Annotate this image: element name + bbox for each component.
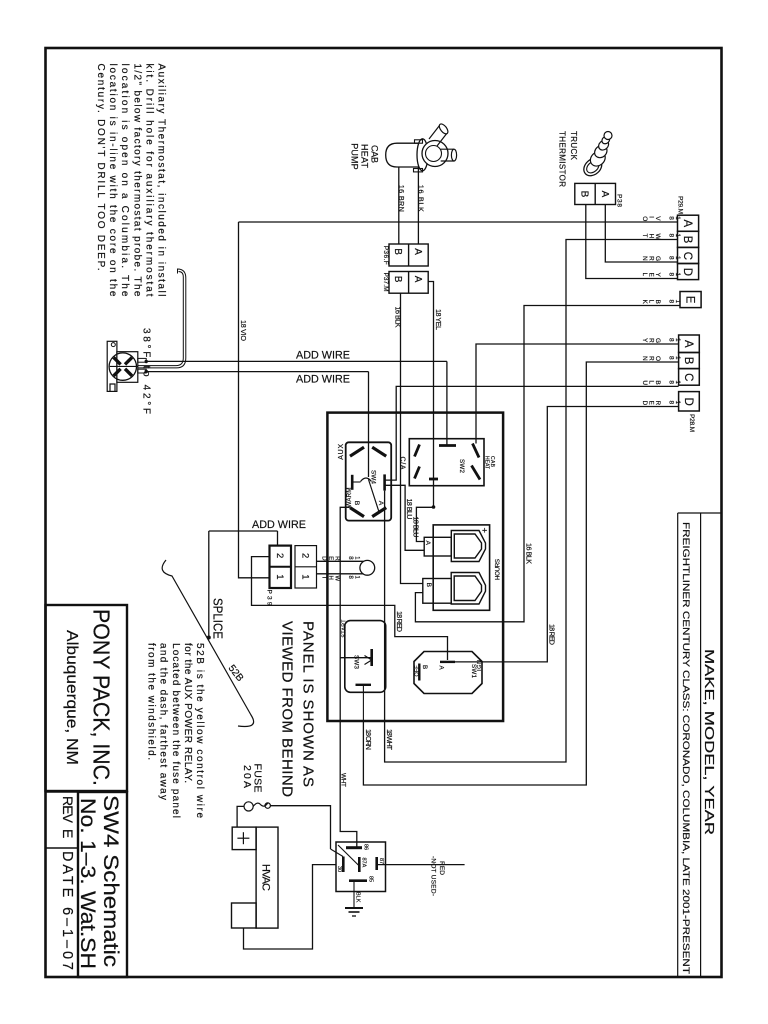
svg-text:P38: P38	[616, 194, 623, 207]
svg-text:8: 8	[667, 216, 674, 220]
svg-text:B: B	[421, 665, 428, 669]
svg-text:Albuquerque, NM: Albuquerque, NM	[63, 630, 80, 765]
svg-text:D: D	[321, 556, 327, 561]
svg-text:2: 2	[274, 553, 285, 558]
svg-text:A: A	[412, 248, 423, 255]
svg-text:kit. Drill hole for auxiliary: kit. Drill hole for auxiliary thermostat	[143, 64, 154, 297]
svg-text:VIEWED FROM BEHIND: VIEWED FROM BEHIND	[279, 621, 296, 797]
svg-text:P28.M: P28.M	[688, 414, 695, 432]
svg-text:START: START	[342, 619, 348, 638]
svg-text:A: A	[412, 276, 423, 283]
svg-text:W: W	[334, 576, 340, 582]
svg-text:8: 8	[667, 356, 674, 360]
svg-text:HVAC: HVAC	[260, 864, 272, 891]
svg-text:DATE 6–1–07: DATE 6–1–07	[59, 851, 75, 970]
svg-text:C/A: C/A	[399, 457, 406, 470]
svg-text:ADD WIRE: ADD WIRE	[296, 350, 350, 362]
svg-text:ADD WIRE: ADD WIRE	[296, 374, 350, 386]
svg-text:P36.F: P36.F	[382, 246, 389, 265]
svg-text:86: 86	[363, 844, 369, 850]
svg-text:O: O	[641, 216, 648, 221]
svg-text:THERMISTOR: THERMISTOR	[558, 131, 567, 187]
svg-text:1: 1	[299, 574, 310, 579]
svg-text:P37.M: P37.M	[382, 273, 389, 292]
svg-text:52B is the yellow control wire: 52B is the yellow control wire	[194, 643, 205, 818]
svg-text:L: L	[641, 273, 648, 277]
svg-text:P29.M: P29.M	[677, 196, 684, 214]
svg-text:18 VIO: 18 VIO	[239, 320, 248, 341]
svg-text:Located between the fuse panel: Located between the fuse panel	[170, 643, 181, 818]
svg-text:18 RED: 18 RED	[395, 611, 404, 632]
svg-text:D: D	[641, 401, 648, 406]
svg-text:HEAT: HEAT	[483, 456, 489, 469]
svg-text:18 ORN: 18 ORN	[364, 729, 373, 750]
svg-text:AUX: AUX	[338, 443, 345, 459]
svg-text:HEAT: HEAT	[360, 144, 370, 169]
svg-text:16 BLK: 16 BLK	[416, 185, 425, 212]
svg-text:SW3: SW3	[353, 655, 360, 670]
svg-text:B: B	[392, 276, 403, 283]
svg-text:D: D	[681, 268, 693, 276]
svg-text:A: A	[599, 191, 610, 198]
svg-text:A: A	[681, 220, 693, 228]
svg-text:location is in-line with the c: location is in-line with the core on the	[107, 64, 118, 297]
svg-text:SW2: SW2	[458, 459, 465, 474]
svg-text:PONY PACK, INC.: PONY PACK, INC.	[89, 609, 115, 786]
svg-text:18 YEL: 18 YEL	[434, 309, 443, 330]
svg-text:for the AUX POWER RELAY.: for the AUX POWER RELAY.	[182, 643, 193, 783]
svg-text:BLK: BLK	[355, 892, 361, 903]
svg-text:B: B	[425, 583, 432, 588]
svg-text:A: A	[424, 541, 431, 546]
svg-text:87A: 87A	[361, 858, 367, 868]
svg-text:SPLICE: SPLICE	[211, 598, 225, 639]
svg-text:U: U	[641, 380, 648, 385]
svg-text:1/2" below factory thermostat: 1/2" below factory thermostat probe. The	[131, 64, 142, 297]
svg-text:20A: 20A	[241, 765, 253, 788]
svg-text:HOURS: HOURS	[495, 559, 502, 580]
svg-text:8: 8	[667, 401, 674, 405]
svg-text:P39: P39	[265, 590, 272, 606]
svg-text:A: A	[682, 340, 694, 348]
svg-text:B: B	[681, 236, 693, 244]
svg-text:B: B	[392, 248, 403, 255]
svg-text:E: E	[683, 296, 695, 304]
svg-text:PUMP: PUMP	[350, 143, 360, 170]
svg-text:-NOT USED-: -NOT USED-	[430, 856, 437, 896]
svg-text:C: C	[682, 373, 694, 381]
svg-text:RED: RED	[438, 861, 445, 875]
svg-text:8: 8	[667, 273, 674, 277]
svg-text:REV: REV	[60, 796, 76, 824]
svg-text:30: 30	[336, 866, 342, 872]
svg-text:8: 8	[667, 234, 674, 238]
svg-text:SW4: SW4	[370, 470, 377, 485]
svg-text:A: A	[377, 501, 384, 506]
svg-text:87: 87	[378, 858, 384, 864]
svg-text:TRUCK: TRUCK	[569, 131, 578, 161]
svg-text:18 WHT: 18 WHT	[385, 729, 394, 751]
svg-text:WHT: WHT	[340, 773, 347, 787]
svg-text:R: R	[334, 556, 340, 561]
svg-text:from the windshield.: from the windshield.	[146, 643, 157, 760]
svg-text:E: E	[60, 829, 76, 838]
svg-text:8: 8	[667, 338, 674, 342]
svg-text:MAKE, MODEL, YEAR: MAKE, MODEL, YEAR	[702, 649, 716, 835]
svg-text:SW1: SW1	[470, 664, 477, 679]
svg-text:PANEL IS SHOWN AS: PANEL IS SHOWN AS	[300, 621, 317, 787]
svg-text:C: C	[681, 252, 693, 260]
svg-text:8: 8	[667, 380, 674, 384]
svg-text:85: 85	[368, 876, 374, 882]
svg-text:K: K	[641, 300, 648, 305]
svg-text:No. 1–3. Wat.SH: No. 1–3. Wat.SH	[76, 798, 100, 969]
svg-text:Y: Y	[641, 338, 648, 343]
svg-text:18 BLU: 18 BLU	[412, 517, 421, 538]
svg-text:16 BLK: 16 BLK	[525, 543, 534, 564]
svg-text:ADD WIRE: ADD WIRE	[252, 519, 306, 531]
svg-text:8: 8	[667, 256, 674, 260]
svg-text:WARM: WARM	[346, 488, 353, 508]
svg-text:18 RED: 18 RED	[548, 624, 557, 645]
svg-text:16 BRN: 16 BRN	[397, 185, 406, 212]
svg-text:T: T	[641, 234, 648, 238]
svg-text:2: 2	[299, 553, 310, 558]
svg-text:N: N	[641, 356, 648, 361]
svg-text:N: N	[641, 256, 648, 261]
svg-text:+: +	[482, 526, 487, 536]
svg-text:T: T	[321, 576, 327, 580]
svg-text:Auxiliary Thermostat, included: Auxiliary Thermostat, included in instal…	[156, 64, 167, 297]
svg-text:B: B	[353, 501, 360, 506]
svg-text:B: B	[579, 191, 590, 198]
svg-text:B: B	[682, 357, 694, 365]
svg-text:Century. DON'T DRILL TOO DEEP: Century. DON'T DRILL TOO DEEP.	[95, 64, 106, 271]
svg-text:FREIGHTLINER CENTURY CLASS: CO: FREIGHTLINER CENTURY CLASS: CORONADO, CO…	[681, 522, 691, 974]
svg-text:D: D	[682, 398, 694, 406]
svg-text:16 BLK: 16 BLK	[394, 307, 403, 328]
svg-text:SW4 Schematic: SW4 Schematic	[99, 795, 123, 967]
svg-text:8: 8	[667, 300, 674, 304]
svg-text:1: 1	[274, 574, 285, 579]
svg-text:CAB: CAB	[370, 145, 380, 163]
